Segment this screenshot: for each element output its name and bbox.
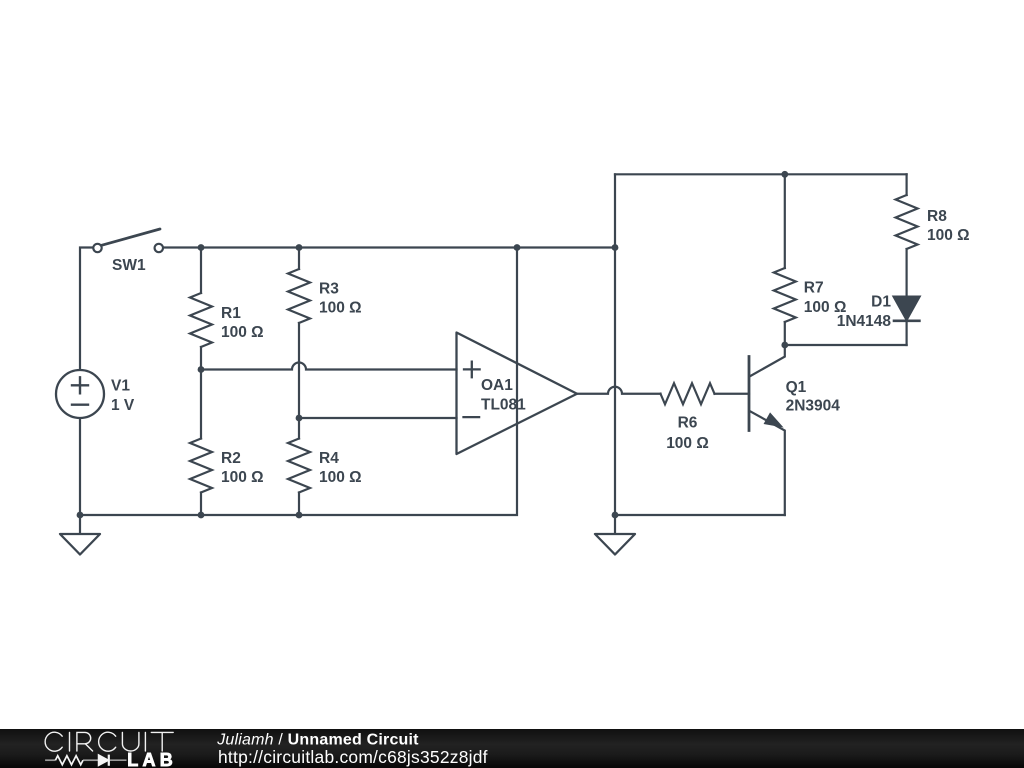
svg-text:Q1: Q1 [786,379,807,396]
node: R4/bottom rail [296,512,303,519]
svg-text:R2: R2 [221,450,241,467]
wire: emitter bottom run y=515 [615,514,785,516]
svg-text:R8: R8 [927,208,947,225]
voltage source V1 [56,370,104,418]
svg-text:100 Ω: 100 Ω [319,300,362,317]
svg-text:100 Ω: 100 Ω [319,469,362,486]
CircuitLab logo: resistor-diode line [45,759,126,761]
svg-text:R1: R1 [221,305,241,322]
svg-text:OA1: OA1 [481,377,513,394]
transistor Q1 [749,345,785,515]
node: rail/x615 [612,244,619,251]
switch SW1 [93,229,163,252]
node: R3/R4/-in [296,415,303,422]
svg-text:R7: R7 [804,279,824,296]
svg-text:1N4148: 1N4148 [837,313,892,330]
wire: vertical x=615 from top rail to ground junction [614,174,616,515]
wire: main top rail y=247.5 from SW1 right terminal to x=615 [163,246,615,248]
node: ground left [77,512,84,519]
svg-text:LAB: LAB [127,750,177,768]
node: rail/R3 [296,244,303,251]
resistor R4 [288,418,310,515]
wire: top-left from corner to SW1 left terminal [80,248,93,371]
wire: V1 bottom to ground rail [79,418,81,515]
svg-text:R4: R4 [319,450,339,467]
ground (right, at x=615) [595,515,635,555]
node: R7/collector/D1 [781,342,788,349]
svg-text:100 Ω: 100 Ω [221,324,264,341]
svg-text:TL081: TL081 [481,396,526,413]
resistor R2 [190,370,212,516]
wire: top rail y=174.3 [615,173,907,175]
svg-text:1 V: 1 V [111,397,135,414]
svg-text:D1: D1 [871,294,891,311]
node: R2/bottom rail [198,512,205,519]
svg-text:100 Ω: 100 Ω [666,435,709,452]
CircuitLab logo: CIRCUIT outline letters [45,732,173,751]
svg-text:R3: R3 [319,280,339,297]
svg-text:100 Ω: 100 Ω [221,469,264,486]
resistor R7 [774,174,796,345]
resistor R8 [896,174,918,296]
svg-text:R6: R6 [678,414,698,431]
wire: collector net y=345 from R7 bottom to D1 column [785,344,907,346]
svg-text:2N3904: 2N3904 [786,397,841,414]
wire: op-amp output y=393.75 with hop over x=615 [577,387,661,394]
node: R1/R2/+in [198,366,205,373]
svg-text:http://circuitlab.com/c68js352: http://circuitlab.com/c68js352z8jdf [218,747,488,767]
svg-text:V1: V1 [111,378,130,395]
node: rail/R1 [198,244,205,251]
footer bar [0,729,1024,768]
resistor R1 [190,248,212,370]
wire: bottom rail y=515 and feedback vertical x=517 [80,248,517,516]
wire: noninverting input y=369.5 with hop over x=299 [201,363,457,370]
diode D1 [894,297,920,345]
svg-text:100 Ω: 100 Ω [927,227,970,244]
node: ground right [612,512,619,519]
ground (left, at V1 net) [60,515,100,555]
op-amp OA1 [457,333,578,455]
wire: R6 right lead to Q1 base [715,393,750,395]
resistor R3 [288,248,310,419]
node: top rail/R7 [781,171,788,178]
resistor R6 [661,383,715,404]
node: rail/feedback [514,244,521,251]
wire: inverting input y=418 [299,417,457,419]
svg-text:SW1: SW1 [112,257,146,274]
